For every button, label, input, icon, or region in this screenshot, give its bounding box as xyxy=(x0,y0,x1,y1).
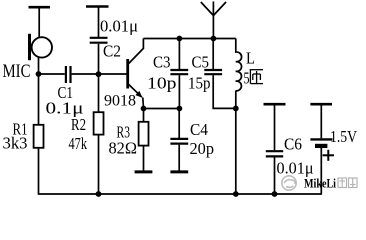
capacitor C4 xyxy=(170,139,188,144)
wire MIC top stem xyxy=(38,7,40,37)
svg-text:82Ω: 82Ω xyxy=(109,139,138,158)
label R2 xyxy=(71,115,86,134)
node C2/R2 junction xyxy=(96,71,102,77)
label R3 xyxy=(117,123,131,142)
label R1 xyxy=(13,120,28,139)
wire C6 bottom stem xyxy=(274,158,276,195)
label C2 xyxy=(103,42,121,61)
svg-text:C5: C5 xyxy=(192,53,210,72)
wire battery bottom stem xyxy=(320,148,322,194)
node MIC junction xyxy=(36,71,42,77)
wire R1 top xyxy=(38,74,40,125)
battery plus sign xyxy=(323,150,334,161)
wire C2 top stem xyxy=(98,7,100,38)
inductor L xyxy=(236,39,242,91)
node L/C5 junction xyxy=(233,106,239,112)
MIC top terminal bar xyxy=(29,6,51,9)
resistor R3 xyxy=(139,122,149,146)
label C6 xyxy=(284,135,302,154)
wire L bottom xyxy=(235,91,237,194)
value 0.1u xyxy=(46,99,84,118)
value 1.5V xyxy=(330,127,357,146)
svg-text:C6: C6 xyxy=(284,135,302,154)
watermark logo xyxy=(282,176,296,190)
battery BT1 1.5V xyxy=(310,139,332,146)
svg-text:1.5V: 1.5V xyxy=(330,127,357,146)
wire C4 top xyxy=(178,109,180,139)
node C3/C4 junction xyxy=(177,106,183,112)
ground C4 xyxy=(170,170,188,173)
watermark text xyxy=(304,176,357,191)
microphone MIC xyxy=(30,34,53,60)
svg-text:47k: 47k xyxy=(69,134,88,153)
transistor Q1 9018 xyxy=(128,48,144,97)
capacitor C3 xyxy=(170,70,188,74)
svg-text:20p: 20p xyxy=(190,139,215,158)
wire R1 bottom xyxy=(38,148,40,194)
battery top terminal bar xyxy=(310,103,332,106)
label L xyxy=(246,49,255,68)
svg-text:0.01μ: 0.01μ xyxy=(100,17,138,36)
capacitor C6 xyxy=(266,151,283,156)
resistor R1 xyxy=(34,125,44,148)
wire collector rail xyxy=(143,38,235,40)
node emitter junction xyxy=(141,106,147,112)
svg-text:MikeLi: MikeLi xyxy=(304,176,336,191)
node C3 top junction xyxy=(177,36,183,42)
wire C3 bottom stem xyxy=(178,75,180,108)
wire battery top stem xyxy=(320,104,322,138)
node C6 ground junction xyxy=(272,191,278,197)
svg-text:C4: C4 xyxy=(190,120,208,139)
value 82ohm xyxy=(109,139,138,158)
capacitor C1 xyxy=(66,66,71,83)
value 0.01u C6 xyxy=(277,159,314,178)
wire R3 top xyxy=(143,109,145,122)
C6 top terminal bar xyxy=(264,103,286,106)
svg-text:MIC: MIC xyxy=(3,61,31,82)
value 0.01u C2 xyxy=(100,17,138,36)
value 9018 xyxy=(104,93,136,110)
value 3k3 xyxy=(3,134,28,153)
svg-text:10p: 10p xyxy=(147,74,177,93)
wire R3 bottom xyxy=(143,146,145,172)
wire C6 top stem xyxy=(274,104,276,150)
svg-text:C3: C3 xyxy=(153,53,171,72)
wire emitter to C4 xyxy=(144,108,180,110)
wire C5 bottom stem xyxy=(213,75,236,108)
svg-text:R2: R2 xyxy=(71,115,86,134)
value 47k xyxy=(69,134,88,153)
wire R2 top xyxy=(98,74,100,112)
antenna xyxy=(201,2,226,39)
wire C3 top stem xyxy=(178,39,180,70)
value 10p xyxy=(147,74,177,93)
ground R3 xyxy=(135,170,153,173)
wire collector riser xyxy=(142,39,144,50)
svg-text:5: 5 xyxy=(244,69,250,88)
wire R2 bottom xyxy=(98,135,100,194)
node antenna junction xyxy=(211,36,217,42)
node tank ground junction xyxy=(233,191,239,197)
wire base left segment xyxy=(39,73,65,75)
label MIC xyxy=(3,61,31,82)
C2 top terminal bar xyxy=(86,5,109,8)
value 20p xyxy=(190,139,215,158)
capacitor C2 xyxy=(90,38,108,43)
svg-text:9018: 9018 xyxy=(104,93,136,110)
value 5 turns xyxy=(244,69,264,88)
wire bottom rail xyxy=(38,193,322,195)
wire C4 bottom xyxy=(178,145,180,172)
wire C5 top stem xyxy=(212,39,214,70)
svg-text:3k3: 3k3 xyxy=(3,134,28,153)
value 15p xyxy=(188,74,211,93)
svg-text:15p: 15p xyxy=(188,74,211,93)
wire base right segment xyxy=(72,73,127,75)
svg-text:L: L xyxy=(246,49,255,68)
resistor R2 xyxy=(94,112,104,134)
label C1 xyxy=(58,83,74,102)
label C3 xyxy=(153,53,171,72)
node R2 ground junction xyxy=(96,191,102,197)
wire MIC to base node xyxy=(38,58,40,74)
svg-text:C2: C2 xyxy=(103,42,121,61)
label C5 xyxy=(192,53,210,72)
wire C2 bottom stem xyxy=(98,44,100,74)
wire emitter drop xyxy=(142,98,145,109)
label C4 xyxy=(190,120,208,139)
capacitor C5 xyxy=(204,70,222,74)
